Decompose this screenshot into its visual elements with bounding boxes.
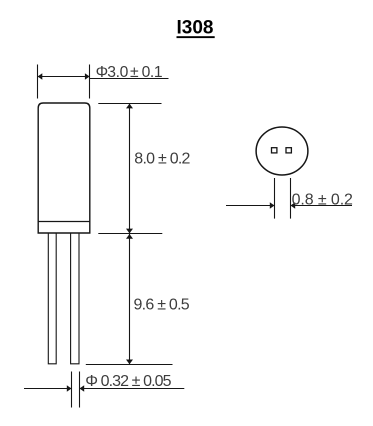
svg-text:Φ 0.32 ± 0.05: Φ 0.32 ± 0.05 xyxy=(85,373,171,390)
dimension line 0.8 left segment with arrow xyxy=(226,202,275,208)
extension line right (lead dia dim) xyxy=(79,372,81,408)
extension line left (lead dia dim) xyxy=(71,372,73,408)
extension line top (8.0 dim) xyxy=(98,103,161,105)
dimension line dia 3.0 with arrows xyxy=(38,73,90,79)
extension line right (0.8 pitch dim) xyxy=(290,178,292,219)
pin 2 square pad xyxy=(286,148,291,153)
dimension line 9.6 vertical with arrows xyxy=(126,234,133,364)
lead 2 (right pin) xyxy=(71,233,79,364)
dimension line 0.8 right segment with arrow xyxy=(291,202,353,208)
extension line bottom (9.6 dim) xyxy=(86,364,173,366)
crystal body outline (side view) xyxy=(38,103,90,233)
crimp line on body xyxy=(38,221,90,223)
leader line under dia 3.0 text xyxy=(90,78,169,80)
extension line left (dia 3.0 dim) xyxy=(37,65,39,99)
extension line right (dia 3.0 dim) xyxy=(89,65,91,99)
dimension line 8.0 vertical with arrows xyxy=(126,104,133,234)
extension line middle (8.0 / 9.6 boundary) xyxy=(98,233,162,235)
extension line left (0.8 pitch dim) xyxy=(274,178,276,219)
pin 1 square pad xyxy=(272,148,277,153)
svg-text:9.6 ± 0.5: 9.6 ± 0.5 xyxy=(134,296,190,313)
title I308 xyxy=(177,18,215,39)
lead 1 (left pin) xyxy=(48,233,56,364)
crystal base circle (bottom view) xyxy=(256,127,308,175)
dimension line lead dia left segment with arrow xyxy=(24,385,72,391)
dimension line lead dia right segment with arrow xyxy=(79,385,184,391)
svg-text:8.0 ± 0.2: 8.0 ± 0.2 xyxy=(134,151,190,168)
svg-text:I308: I308 xyxy=(177,18,214,39)
svg-text:0.8 ± 0.2: 0.8 ± 0.2 xyxy=(292,192,353,209)
